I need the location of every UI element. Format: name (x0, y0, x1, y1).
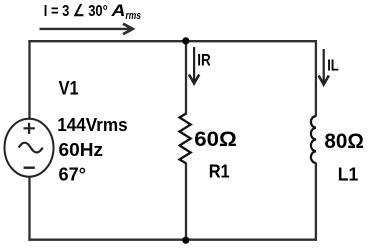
wire bottom (28, 239, 316, 241)
sine symbol (19, 143, 43, 153)
svg-text:144Vrms: 144Vrms (57, 114, 128, 135)
svg-text:60Hz: 60Hz (59, 139, 104, 160)
wire left lower segment (28, 177, 30, 241)
node top (182, 37, 189, 44)
svg-text:60Ω: 60Ω (194, 128, 237, 151)
current arrow I (top, pointing right) (40, 24, 133, 35)
current arrow IL (down) (319, 49, 329, 84)
svg-text:R1: R1 (209, 162, 230, 182)
svg-text:67°: 67° (59, 163, 87, 184)
node bottom (182, 237, 189, 244)
current arrow IR (down) (189, 47, 199, 83)
svg-text:L1: L1 (338, 164, 359, 184)
voltage source V1 circle (5, 119, 54, 177)
resistor R1 zigzag (180, 114, 191, 164)
plus sign (24, 123, 35, 134)
wire top (28, 40, 316, 42)
inductor L1 coil (311, 116, 316, 163)
wire left upper segment (28, 40, 30, 118)
svg-text:IR: IR (197, 50, 211, 69)
minus sign (24, 166, 35, 168)
svg-text:A: A (110, 1, 125, 20)
svg-text:rms: rms (126, 10, 142, 22)
svg-text:IL: IL (327, 57, 339, 74)
wire right lower segment (315, 163, 317, 241)
wire right upper segment (315, 40, 317, 116)
wire middle lower segment (185, 163, 187, 241)
svg-text:80Ω: 80Ω (324, 130, 364, 153)
wire middle upper segment (185, 40, 187, 114)
svg-text:I = 3 ∠ 30°: I = 3 ∠ 30° (44, 3, 108, 20)
svg-text:V1: V1 (59, 78, 79, 99)
